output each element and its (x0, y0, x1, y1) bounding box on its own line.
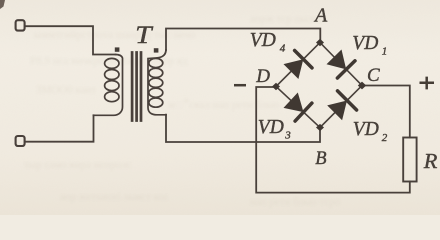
bridge arm D-A (276, 43, 320, 87)
bridge arm A-C (320, 43, 362, 86)
transformer core (132, 53, 141, 121)
terminal X1 (top-left input) (16, 20, 25, 30)
ghost bleed-through texture (24, 13, 341, 208)
polarity dot (secondary) (154, 48, 159, 52)
transformer T secondary winding (right coil) (148, 50, 166, 115)
corner scan smudge (0, 0, 5, 9)
svg-text:R: R (423, 149, 438, 173)
wire: top terminal to primary top (25, 26, 115, 54)
svg-text:ЗМОО0 кант: ЗМОО0 кант (36, 84, 96, 96)
svg-text:2: 2 (382, 132, 388, 144)
polarity dot (primary) (115, 47, 120, 51)
svg-text:4: 4 (280, 43, 286, 55)
diode VD3 (D to B) (284, 93, 312, 122)
svg-text:T: T (135, 22, 154, 49)
terminal X2 (bottom-left input) (16, 136, 25, 146)
transformer T primary winding (left coil) (94, 55, 123, 116)
svg-text:VD: VD (258, 117, 284, 138)
svg-text:1: 1 (382, 46, 388, 58)
svg-text:мீсвал нап рети блыо: мீсвал нап рети блыо (168, 99, 280, 111)
plus sign (node C polarity) (420, 77, 435, 90)
svg-text:ыммтгийрстроva шанряд тыс нечо: ыммтгийрстроva шанряд тыс нечо (34, 29, 196, 41)
bridge arm D-B (276, 87, 320, 128)
svg-text:A: A (313, 5, 328, 27)
svg-text:VD: VD (250, 30, 276, 51)
svg-text:Р8.9 нса вичкpërm тlarge тnapр: Р8.9 нса вичкpërm тlarge тnapр яд (30, 55, 188, 67)
diode VD2 (B to C) (327, 91, 356, 120)
svg-text:C: C (367, 65, 380, 86)
wire: secondary top to node A (166, 29, 320, 51)
node A junction (316, 39, 324, 46)
minus sign (node D polarity) (234, 84, 246, 87)
diode VD1 (A to C) (327, 50, 356, 79)
svg-text:B: B (315, 149, 326, 169)
svg-text:тыр само вира нєпролс: тыр само вира нєпролс (24, 159, 132, 171)
node C junction (358, 82, 366, 90)
svg-text:нап рети блыо тсро: нап рети блыо тсро (250, 196, 341, 208)
node B junction (316, 124, 324, 131)
bridge arm B-C (320, 86, 362, 128)
node D junction (272, 83, 280, 90)
svg-text:VD: VD (353, 119, 379, 140)
wire: bottom terminal to primary bottom (25, 115, 93, 141)
svg-text:апрж тср оылвс: апрж тср оылвс (250, 13, 323, 25)
svg-text:3: 3 (284, 129, 291, 141)
wire: node B down and back to secondary bottom (166, 115, 320, 142)
diode VD4 (D to A) (284, 51, 313, 80)
svg-text:VD: VD (352, 33, 378, 54)
wire: node C to resistor top (362, 86, 410, 138)
wire: node D to minus rail, down and along bottom to resistor bottom (256, 87, 410, 193)
resistor R body (403, 138, 416, 182)
svg-text:D: D (255, 66, 270, 87)
svg-text:апр жетsatori лывст коε: апр жетsatori лывст коε (60, 191, 169, 203)
